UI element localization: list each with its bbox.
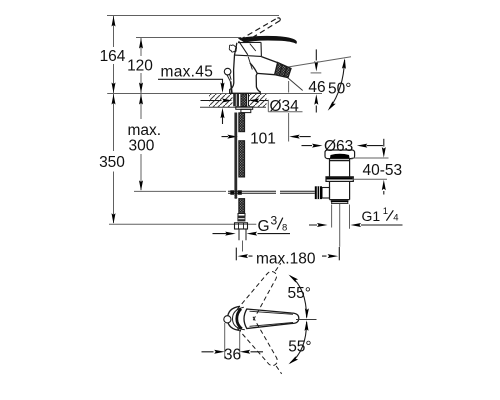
rod bottom tip bbox=[234, 196, 237, 198]
drain locknut bbox=[326, 177, 353, 182]
dimension 46 vertical bbox=[315, 49, 317, 60]
svg-text:8: 8 bbox=[282, 222, 287, 233]
dimension 36 bbox=[225, 323, 240, 359]
svg-text:40-53: 40-53 bbox=[363, 162, 403, 179]
dimension G1 1/4 on tailpipe bbox=[332, 205, 350, 229]
pull rod through deck (dark bar) bbox=[233, 94, 239, 106]
arrowheads 120 bbox=[139, 38, 143, 49]
drain rod knob (knurled) bbox=[315, 186, 322, 199]
svg-text:1: 1 bbox=[383, 206, 388, 217]
svg-text:3: 3 bbox=[271, 214, 278, 228]
drain flange bbox=[325, 150, 355, 159]
svg-text:55°: 55° bbox=[288, 338, 311, 355]
svg-text:55°: 55° bbox=[288, 285, 311, 302]
drain plug (black) bbox=[330, 154, 350, 158]
arrowheads 164 bbox=[112, 16, 116, 27]
spout outlet plane extension line bbox=[288, 57, 351, 67]
decorative blob near cap bbox=[229, 45, 236, 52]
hose compression ring bbox=[238, 214, 245, 217]
top view cap outer arc bbox=[228, 306, 242, 330]
max45 lower arrow bbox=[222, 112, 224, 124]
svg-text:300: 300 bbox=[129, 137, 155, 154]
terminator line at pop-up rod (max300) bbox=[134, 190, 226, 192]
dashed lever arm rotated -55 (down) bbox=[237, 317, 289, 380]
top view lever arm solid bbox=[244, 309, 299, 329]
dimension 40-53 bbox=[352, 157, 389, 159]
svg-text:350: 350 bbox=[99, 154, 125, 171]
cap inner detail bbox=[248, 44, 256, 70]
svg-text:46: 46 bbox=[308, 79, 325, 96]
deck bottom line bbox=[200, 106, 266, 108]
dashed lever arm rotated +55 (up) bbox=[237, 258, 289, 321]
top view lever bevel lines bbox=[250, 311, 294, 326]
dimension Ø34 arrows across deck hole bbox=[201, 100, 269, 102]
threaded shank through deck bbox=[241, 94, 247, 106]
deck hatching right bbox=[249, 94, 267, 107]
svg-text:Ø34: Ø34 bbox=[270, 98, 300, 115]
dimension G3/8 on supply pipe bbox=[213, 233, 291, 235]
dimension Ø63 bbox=[302, 145, 383, 147]
50 deg arc with arrows bbox=[330, 60, 345, 109]
rod clamp blocks bbox=[230, 190, 234, 194]
cartridge cap outline bbox=[235, 41, 262, 56]
top view cap thick edge bbox=[237, 309, 242, 329]
hose ferrule bbox=[237, 216, 245, 221]
svg-text:120: 120 bbox=[127, 58, 153, 75]
lever handle (solid, rest position) bbox=[239, 36, 297, 43]
svg-text:164: 164 bbox=[100, 48, 126, 65]
dimension 101 spout reach bbox=[222, 136, 311, 138]
dimension max.180 bbox=[235, 248, 237, 261]
faucet body outline bbox=[230, 43, 261, 94]
drain neck bbox=[330, 159, 350, 177]
deck top line bbox=[107, 93, 322, 95]
svg-text:G1: G1 bbox=[362, 208, 381, 224]
svg-text:G: G bbox=[258, 218, 270, 235]
water jet line at 50 deg bbox=[286, 77, 302, 91]
supply pipe centerline lower bbox=[242, 241, 244, 252]
pop-up vertical rod below deck bbox=[234, 113, 237, 197]
deck hole right edge bbox=[247, 94, 249, 106]
extension line top of lever rest (120 ref) bbox=[136, 37, 241, 39]
supply pipe below nut bbox=[239, 229, 246, 240]
extension line spout outlet vertical bbox=[288, 81, 290, 142]
drain bottom step and tailpipe bbox=[330, 199, 350, 201]
svg-text:Ø63: Ø63 bbox=[324, 138, 353, 155]
svg-text:max.180: max.180 bbox=[256, 250, 316, 267]
55deg upper arc with arrows bbox=[290, 276, 306, 318]
top view knob circle bbox=[224, 316, 231, 323]
deck hatching left bbox=[209, 94, 233, 107]
aerator knurled band bbox=[275, 63, 291, 78]
flexible supply hose (crosshatched braid segments) bbox=[239, 113, 245, 214]
hose end nut G3/8 bbox=[235, 223, 248, 229]
lever handle raised (dashed) bbox=[240, 18, 280, 43]
drain body bbox=[330, 182, 350, 200]
centerline right of lever tip bbox=[296, 319, 317, 321]
dimension line 164/350 vertical bbox=[113, 16, 115, 223]
arrowheads max300 bbox=[139, 94, 143, 105]
spout upper and lower edges bbox=[257, 57, 277, 75]
extension line top of lever raised (164 ref) bbox=[107, 15, 279, 17]
svg-text:36: 36 bbox=[224, 347, 241, 364]
drain centerline bbox=[339, 204, 341, 247]
dimension line 120/max300 vertical bbox=[140, 38, 142, 190]
arrowheads 350 bbox=[112, 94, 116, 105]
svg-text:50°: 50° bbox=[328, 81, 351, 98]
top view slot (black) bbox=[244, 315, 248, 324]
drain rod port bbox=[322, 188, 330, 199]
horizontal pop-up linkage rod bbox=[228, 191, 315, 193]
55deg lower arc with arrows bbox=[290, 322, 306, 363]
svg-text:4: 4 bbox=[393, 213, 398, 224]
washer and mounting nut below deck bbox=[236, 107, 253, 110]
svg-text:101: 101 bbox=[250, 131, 276, 148]
svg-text:max.45: max.45 bbox=[161, 64, 214, 81]
pop-up rod knob (side) bbox=[224, 68, 231, 75]
bottom reference line (end of supply hose) bbox=[109, 223, 256, 225]
top view cap inner arc bbox=[233, 307, 245, 330]
